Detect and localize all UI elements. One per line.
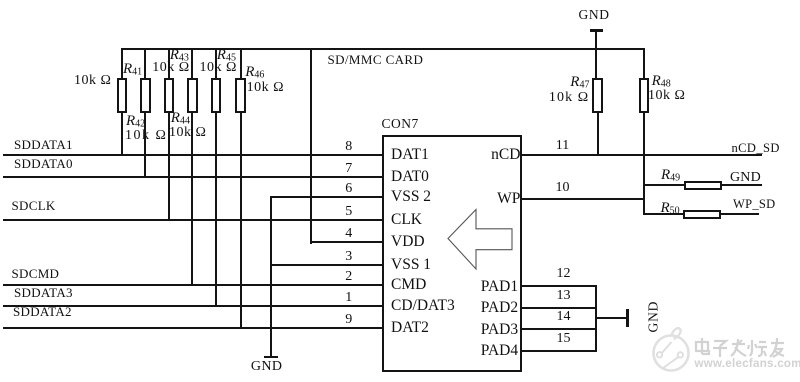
net label WP_SD [733,197,775,212]
ground GND (right of PADs) [626,309,629,328]
net label nCD_SD [732,141,780,156]
wire: VSS1 row y=264.5 [270,264,382,266]
pin name CD/DAT3 [391,297,455,315]
友 [771,342,784,344]
pin name DAT1 [391,146,429,164]
wire: SDCMD row y=284.5 [3,284,382,286]
wire: R48 lower lead [643,112,645,215]
pin name nCD [491,146,520,164]
pin name PAD1 [481,278,518,296]
pin number 12 [554,266,574,282]
pin name DAT2 [391,319,429,337]
wire: VDD row y=242 [310,241,382,243]
net label SDDATA0 [14,156,73,172]
pin number 6 [339,181,359,197]
wire: PAD3 row y=329 [520,328,597,330]
wire: VDD vertical riser x=311 [310,48,312,244]
wire: WP row y=199 [520,198,645,200]
watermark logo [648,322,698,378]
net label SDDATA3 [14,285,73,301]
resistor R47 [592,78,603,113]
子 [714,341,726,346]
wire: SDDATA1 row y=155 [3,154,382,156]
resistor R50 [683,210,721,220]
烧 [751,340,753,351]
arrow symbol inside CON7 [440,200,520,278]
wire: R42 lead [144,48,146,178]
resistor R48 [639,78,650,113]
wire: R45 lead [215,48,217,307]
net label SDCMD [12,266,60,282]
net label SDCLK [12,198,56,214]
pin name VSS 1 [391,256,431,274]
pin name VDD [391,233,425,251]
resistor R46 [235,78,246,113]
pin number 7 [339,161,359,177]
wire: PAD2 row y=307.5 [520,307,597,309]
wire: PAD1 row y=286 [520,285,597,287]
resistor R41 [117,78,128,113]
pin number 14 [554,309,574,325]
resistor R49 [684,181,723,191]
wire: R47 lower lead [597,112,599,156]
pin number 15 [554,331,574,347]
pin name CLK [391,211,422,229]
connector CON7 box [382,135,523,373]
wire: VSS2 row y=196.5 [270,196,382,198]
watermark CJK text (simplified strokes) [694,337,786,361]
resistor R44 [187,78,198,113]
wire: PAD4 row y=350.5 [520,350,597,352]
pin name CMD [391,276,426,294]
pin number 13 [554,288,574,304]
pin name VSS 2 [391,188,431,206]
wire: R49 branch y=185 [643,184,762,186]
pin number 9 [339,312,359,328]
resistor R43 [164,78,175,113]
wire: SDCLK row y=219.5 [3,219,382,221]
wire: SDDATA3 row y=305.5 [3,305,382,307]
wire: top GND bus [121,48,645,50]
pin name DAT0 [391,168,429,186]
wire: R50 branch y=214 [643,213,759,215]
resistor R45 [211,78,222,113]
pin number 4 [339,226,359,242]
title SD/MMC CARD [328,52,424,68]
net label SDDATA1 [14,137,73,153]
ground GND (top) [590,29,604,32]
pin number 10 [553,180,573,196]
net label GND (right) [730,170,761,186]
pin name PAD3 [481,321,518,339]
pin number 1 [339,290,359,306]
wire: R43 lead [168,48,170,221]
wire: R46 lead [240,48,242,329]
wire: R48 top corner vertical x=644 [643,48,645,216]
wire: nCD row y=155 [520,154,762,156]
net label SDDATA2 [13,304,72,320]
wire: R44 lead [191,48,193,286]
wire: SDDATA0 row y=176.5 [3,176,382,178]
pin number 3 [339,249,359,265]
wire: PAD ground branch y=317.5 [596,317,627,319]
pin name PAD2 [481,299,518,317]
watermark url text [695,358,800,370]
电 [696,342,708,351]
发 [732,343,745,345]
pin name PAD4 [481,342,518,360]
wire: PAD joining vertical x=596 [595,285,597,352]
resistor R42 [140,78,151,113]
pin number 11 [553,138,573,154]
pin number 8 [339,139,359,155]
pin name WP [497,190,520,208]
pin number 5 [339,204,359,220]
wire: R41 lead [121,48,123,157]
ground GND (middle, below VSS) [264,356,278,359]
pin number 2 [339,269,359,285]
node: mid ground vertical [270,196,272,358]
wire: SDDATA2 row y=327.5 [3,327,382,329]
